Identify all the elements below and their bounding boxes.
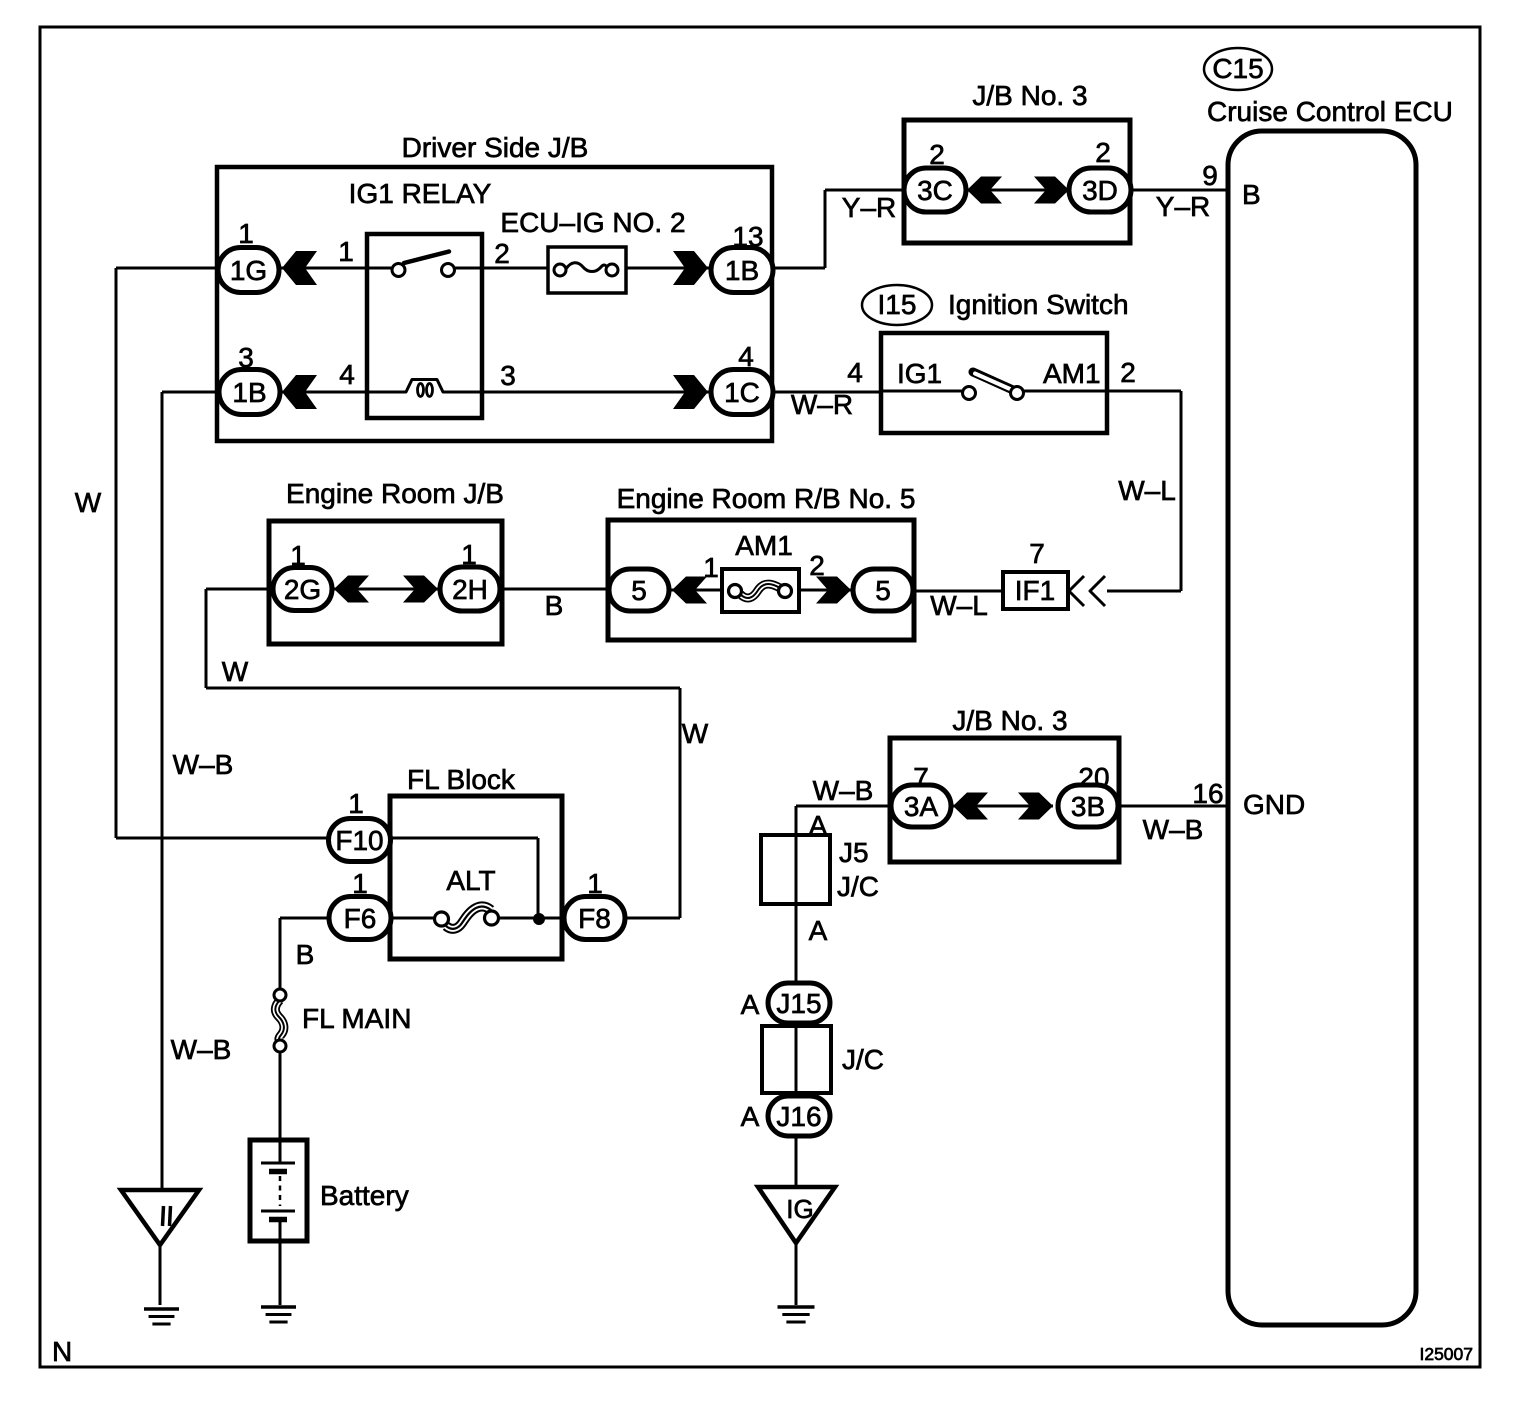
- svg-text:1: 1: [703, 552, 719, 583]
- svg-text:C15: C15: [1212, 53, 1263, 84]
- svg-text:W: W: [75, 487, 102, 518]
- svg-text:3C: 3C: [917, 175, 953, 206]
- svg-text:7: 7: [1029, 538, 1045, 569]
- svg-text:1G: 1G: [230, 255, 267, 286]
- svg-text:J/C: J/C: [842, 1044, 884, 1075]
- svg-text:A: A: [809, 915, 828, 946]
- svg-text:J5: J5: [839, 837, 869, 868]
- svg-text:2: 2: [1120, 357, 1136, 388]
- svg-text:B: B: [545, 590, 564, 621]
- svg-text:4: 4: [738, 341, 754, 372]
- svg-text:1: 1: [238, 218, 254, 249]
- svg-text:IG1 RELAY: IG1 RELAY: [349, 178, 492, 209]
- svg-text:3B: 3B: [1071, 791, 1105, 822]
- svg-text:N: N: [52, 1336, 72, 1367]
- svg-text:Engine Room R/B No. 5: Engine Room R/B No. 5: [617, 483, 916, 514]
- svg-text:3: 3: [238, 342, 254, 373]
- svg-text:I15: I15: [878, 289, 917, 320]
- svg-text:Battery: Battery: [320, 1180, 409, 1211]
- svg-text:1: 1: [587, 868, 603, 899]
- svg-text:2: 2: [1095, 137, 1111, 168]
- svg-text:IF1: IF1: [1015, 575, 1055, 606]
- svg-text:FL Block: FL Block: [407, 764, 516, 795]
- svg-text:2: 2: [809, 550, 825, 581]
- svg-text:J/B No. 3: J/B No. 3: [972, 80, 1087, 111]
- svg-text:4: 4: [847, 357, 863, 388]
- svg-text:1: 1: [461, 539, 477, 570]
- svg-text:2G: 2G: [284, 574, 321, 605]
- svg-text:2: 2: [494, 238, 510, 269]
- svg-text:Driver Side J/B: Driver Side J/B: [402, 132, 589, 163]
- svg-text:F8: F8: [578, 903, 611, 934]
- svg-text:1: 1: [348, 788, 364, 819]
- svg-text:W–B: W–B: [813, 775, 874, 806]
- svg-text:1B: 1B: [232, 377, 266, 408]
- svg-text:Ignition Switch: Ignition Switch: [948, 289, 1129, 320]
- svg-text:1: 1: [352, 868, 368, 899]
- svg-text:3D: 3D: [1082, 175, 1118, 206]
- svg-text:W–L: W–L: [1118, 475, 1176, 506]
- svg-text:AM1: AM1: [735, 530, 793, 561]
- svg-text:1: 1: [338, 236, 354, 267]
- svg-text:B: B: [296, 939, 315, 970]
- svg-text:2: 2: [929, 139, 945, 170]
- svg-text:20: 20: [1078, 762, 1109, 793]
- svg-text:9: 9: [1202, 160, 1218, 191]
- svg-text:F10: F10: [335, 825, 383, 856]
- svg-text:A: A: [809, 810, 828, 841]
- svg-text:W: W: [682, 718, 709, 749]
- svg-text:16: 16: [1192, 778, 1223, 809]
- svg-text:IG: IG: [786, 1194, 813, 1224]
- svg-text:2H: 2H: [452, 574, 488, 605]
- svg-text:F6: F6: [344, 903, 377, 934]
- svg-text:4: 4: [339, 359, 355, 390]
- svg-text:W–L: W–L: [930, 590, 988, 621]
- svg-text:5: 5: [875, 575, 891, 606]
- svg-text:I25007: I25007: [1419, 1344, 1473, 1364]
- svg-text:1B: 1B: [725, 255, 759, 286]
- svg-text:J15: J15: [776, 988, 821, 1019]
- svg-text:W–R: W–R: [791, 389, 853, 420]
- svg-text:AM1: AM1: [1043, 358, 1101, 389]
- svg-text:IG1: IG1: [897, 358, 942, 389]
- svg-text:3A: 3A: [904, 791, 939, 822]
- svg-text:FL MAIN: FL MAIN: [302, 1003, 411, 1034]
- svg-text:Engine Room J/B: Engine Room J/B: [286, 478, 504, 509]
- svg-text:13: 13: [732, 221, 763, 252]
- svg-text:Cruise Control ECU: Cruise Control ECU: [1207, 96, 1453, 127]
- svg-text:3: 3: [500, 360, 516, 391]
- svg-text:1C: 1C: [724, 377, 760, 408]
- svg-text:J/B No. 3: J/B No. 3: [952, 705, 1067, 736]
- svg-text:J16: J16: [776, 1101, 821, 1132]
- svg-text:GND: GND: [1243, 789, 1305, 820]
- svg-text:A: A: [741, 1101, 760, 1132]
- svg-text:ECU–IG NO. 2: ECU–IG NO. 2: [500, 207, 685, 238]
- svg-text:W–B: W–B: [173, 749, 234, 780]
- svg-text:Y–R: Y–R: [1156, 191, 1210, 222]
- svg-text:W–B: W–B: [171, 1034, 232, 1065]
- svg-text:W–B: W–B: [1143, 814, 1204, 845]
- svg-text:J/C: J/C: [837, 871, 879, 902]
- svg-text:Y–R: Y–R: [842, 192, 896, 223]
- svg-text:7: 7: [913, 762, 929, 793]
- svg-text:B: B: [1242, 179, 1261, 210]
- svg-text:ALT: ALT: [446, 865, 495, 896]
- svg-text:1: 1: [290, 540, 306, 571]
- svg-text:W: W: [222, 656, 249, 687]
- svg-text:A: A: [741, 989, 760, 1020]
- svg-text:5: 5: [631, 575, 647, 606]
